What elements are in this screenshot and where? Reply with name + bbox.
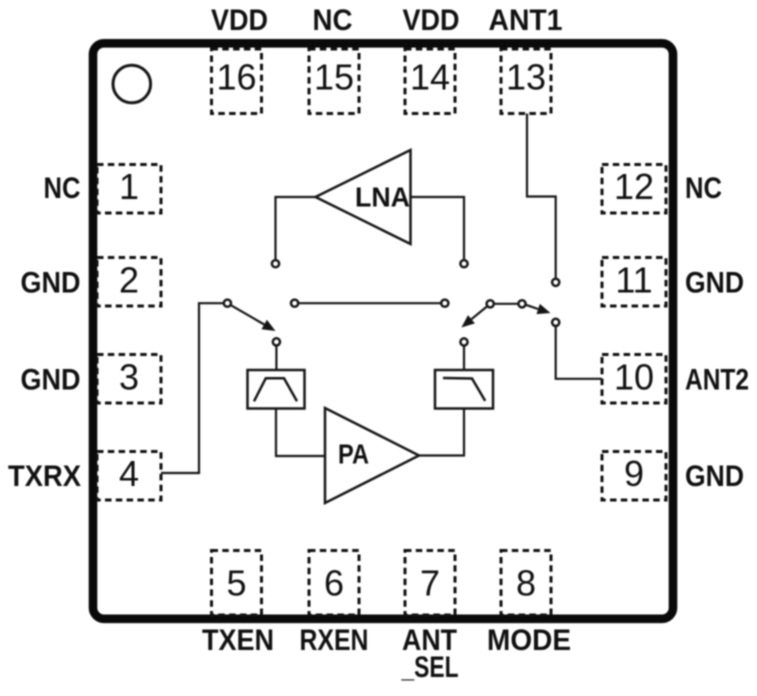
chip body U1 (QFN-16 package outline) [93,43,673,619]
node RX-out (LNA output contact) [272,260,279,267]
svg-text:10: 10 [614,357,654,398]
svg-text:ANT1: ANT1 [489,4,563,37]
pin 3 pad [97,355,161,404]
wire TX filter to PA input [276,409,325,457]
svg-text:NC: NC [313,4,353,37]
pin 13 pad [501,49,551,114]
pin 1 marker (index dot) [113,65,151,103]
amplifier LNA (triangle, output points left) [316,150,411,244]
svg-text:6: 6 [324,563,344,604]
svg-text:13: 13 [506,57,546,98]
pin 14 pad [405,49,455,114]
svg-text:VDD: VDD [403,4,460,37]
wire LNA input from antenna switch node [411,197,465,259]
svg-text:14: 14 [410,57,450,98]
svg-text:GND: GND [21,364,81,397]
wire ANT2 contact down to pin 10 [556,326,602,379]
svg-text:GND: GND [685,267,744,300]
svg-text:GND: GND [21,267,81,300]
svg-text:5: 5 [226,563,246,604]
node ANT1 switch contact [552,279,559,286]
pin 7 pad [405,551,455,616]
svg-text:GND: GND [685,460,744,493]
pin 16 pad [212,49,262,114]
pin 11 pad [602,258,666,307]
node common rail left [291,300,298,307]
pin 4 pad [97,452,161,501]
svg-text:TXEN: TXEN [202,624,274,657]
svg-text:LNA: LNA [355,182,410,213]
svg-text:VDD: VDD [211,4,268,37]
pin 6 pad [309,551,359,616]
wire TXRX from pin 4 up to TX switch pole [161,303,223,473]
svg-text:1: 1 [119,166,139,207]
svg-text:NC: NC [685,172,722,205]
wire ANT1 from pin 13 down to antenna switch [527,114,556,278]
svg-text:4: 4 [119,453,139,494]
svg-text:8: 8 [516,563,536,604]
node ANT2 switch contact [552,319,559,326]
wire PA output up to RX filter [419,409,464,456]
pin 9 pad [602,452,666,501]
svg-text:_SEL: _SEL [401,651,459,684]
svg-text:ANT2: ANT2 [685,364,749,397]
wire LNA output to RX switch throw node [276,197,316,259]
node TX switch pole [224,300,231,307]
svg-text:MODE: MODE [487,624,571,657]
switch SW2 arm toward RX filter (arrow) [461,307,486,328]
node common rail right [441,300,448,307]
wire TX throw down to TX filter [275,346,277,370]
switch SW1 arm (TX switch arrow) [232,306,276,331]
pin 2 pad [97,258,161,307]
svg-text:2: 2 [119,260,139,301]
pin 8 pad [501,551,551,616]
switch SW2 antenna switch pivot bar [494,303,518,305]
switch SW2 arm toward ANT2 contact (arrow) [526,304,550,314]
svg-text:15: 15 [314,57,354,98]
pin 10 pad [602,355,666,404]
pin 1 pad [97,165,161,214]
node antenna switch pivot B [518,300,525,307]
svg-text:3: 3 [119,357,139,398]
svg-text:12: 12 [614,166,654,207]
amplifier PA (triangle, output points right) [325,408,419,503]
svg-text:9: 9 [624,453,644,494]
node antenna switch pivot A [487,300,494,307]
pin 15 pad [309,49,359,114]
wire RX filter up to antenna switch contact [463,347,465,371]
net label ANT_SEL (pin 7) [401,624,459,684]
svg-text:PA: PA [338,439,369,470]
svg-text:RXEN: RXEN [300,624,369,657]
svg-text:11: 11 [615,260,652,301]
node RX filter top contact [460,338,467,345]
filter FL1 (TX band-pass filter) [248,370,305,409]
node RX-in (LNA input contact) [460,260,467,267]
svg-text:NC: NC [44,172,81,205]
svg-text:TXRX: TXRX [8,460,81,493]
node TX switch throw [273,338,280,345]
svg-text:7: 7 [420,563,440,604]
wire common rail between TX switch and antenna switch [299,302,441,304]
svg-text:16: 16 [216,57,256,98]
pin 12 pad [602,165,666,214]
pin 5 pad [212,551,262,616]
filter FL2 (RX low-pass filter) [435,370,493,409]
